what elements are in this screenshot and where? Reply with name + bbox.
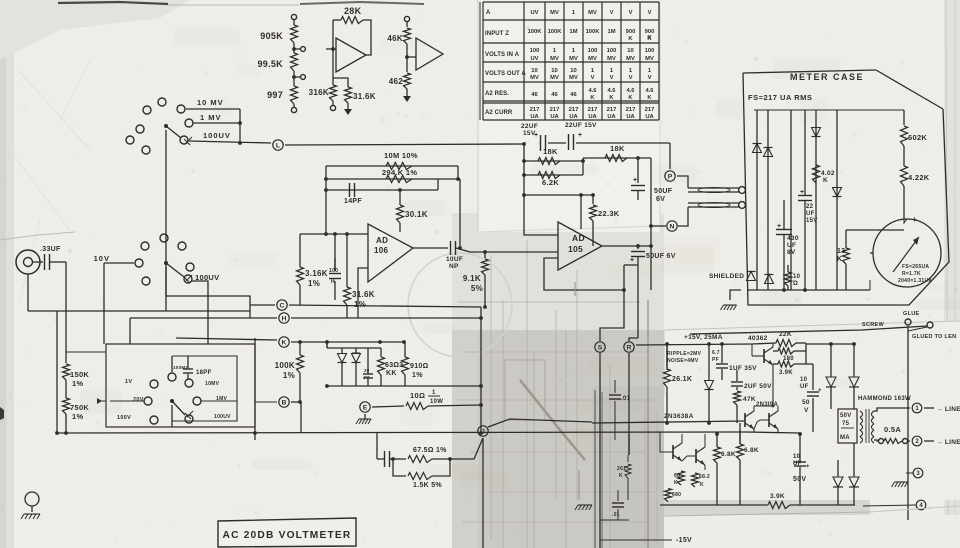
- svg-text:10M 10%: 10M 10%: [384, 151, 418, 160]
- svg-text:6V: 6V: [656, 196, 665, 203]
- svg-text:22UF: 22UF: [521, 123, 538, 130]
- svg-text:50V: 50V: [793, 476, 806, 483]
- svg-text:910Ω: 910Ω: [410, 363, 429, 370]
- svg-text:10Ω: 10Ω: [410, 391, 425, 400]
- svg-text:67.5Ω 1%: 67.5Ω 1%: [413, 447, 447, 454]
- svg-text:UF: UF: [800, 384, 809, 390]
- svg-text:217: 217: [550, 107, 560, 113]
- svg-text:2N3I9A: 2N3I9A: [756, 402, 779, 408]
- svg-text:10: 10: [570, 68, 576, 74]
- svg-text:9.1K: 9.1K: [463, 274, 481, 283]
- svg-text:UA: UA: [645, 114, 654, 120]
- svg-text:8V: 8V: [787, 249, 796, 256]
- svg-text:997: 997: [267, 90, 283, 100]
- svg-text:10: 10: [793, 274, 801, 280]
- svg-text:217: 217: [588, 107, 598, 113]
- svg-text:294.K 1%: 294.K 1%: [382, 168, 417, 177]
- svg-text:UA: UA: [626, 114, 635, 120]
- svg-text:→ LINE: → LINE: [936, 406, 960, 413]
- svg-text:22.3K: 22.3K: [598, 209, 620, 218]
- svg-text:UV: UV: [530, 10, 538, 16]
- svg-text:905K: 905K: [260, 31, 283, 41]
- svg-text:100: 100: [530, 48, 540, 54]
- svg-text:1%: 1%: [283, 371, 295, 380]
- svg-text:100: 100: [329, 268, 338, 274]
- svg-text:+: +: [777, 223, 781, 230]
- svg-text:0.5A: 0.5A: [884, 425, 901, 434]
- svg-text:MA: MA: [840, 435, 850, 441]
- svg-text:MV: MV: [569, 75, 578, 81]
- svg-text:MV: MV: [530, 75, 539, 81]
- svg-text:10V: 10V: [94, 254, 110, 263]
- svg-text:100UV: 100UV: [214, 414, 231, 420]
- svg-text:1V: 1V: [125, 379, 132, 385]
- svg-text:18PF: 18PF: [196, 370, 212, 376]
- svg-text:900: 900: [626, 29, 636, 35]
- svg-text:.33UF: .33UF: [40, 246, 61, 253]
- svg-text:+: +: [578, 132, 582, 139]
- svg-text:14PF: 14PF: [344, 198, 362, 205]
- svg-text:217: 217: [569, 107, 579, 113]
- svg-text:28K: 28K: [344, 6, 362, 16]
- svg-text:1%: 1%: [412, 372, 423, 379]
- svg-text:+: +: [806, 464, 810, 470]
- svg-text:C: C: [280, 302, 285, 309]
- svg-text:MV: MV: [626, 56, 635, 62]
- svg-text:10: 10: [800, 377, 808, 383]
- svg-text:6.2K: 6.2K: [542, 178, 559, 187]
- svg-text:1M: 1M: [569, 29, 577, 35]
- svg-text:15V: 15V: [806, 218, 818, 224]
- svg-text:602K: 602K: [908, 133, 927, 142]
- svg-text:A2 CURR: A2 CURR: [485, 110, 513, 116]
- svg-text:AD: AD: [572, 233, 585, 243]
- svg-text:1: 1: [432, 390, 436, 396]
- svg-text:MV: MV: [569, 56, 578, 62]
- svg-text:+: +: [912, 215, 917, 224]
- svg-text:+: +: [818, 388, 822, 394]
- svg-text:VOLTS IN A: VOLTS IN A: [485, 52, 520, 58]
- svg-text:10: 10: [551, 68, 557, 74]
- svg-text:UF: UF: [806, 211, 815, 217]
- svg-text:217: 217: [645, 107, 655, 113]
- svg-text:430: 430: [787, 235, 799, 242]
- svg-text:1UF 35V: 1UF 35V: [729, 365, 757, 372]
- svg-text:31.6K: 31.6K: [353, 92, 376, 101]
- svg-text:63Ω3: 63Ω3: [385, 362, 404, 369]
- svg-text:68.2: 68.2: [699, 474, 710, 480]
- svg-text:MV: MV: [607, 56, 616, 62]
- svg-text:3.16K: 3.16K: [305, 269, 328, 278]
- svg-text:100: 100: [607, 48, 617, 54]
- svg-text:1%: 1%: [308, 279, 320, 288]
- svg-text:20: 20: [364, 368, 370, 373]
- svg-text:PF: PF: [712, 357, 719, 363]
- svg-text:MV: MV: [588, 56, 597, 62]
- svg-text:E: E: [363, 404, 368, 411]
- svg-text:.01: .01: [612, 512, 620, 518]
- svg-text:+: +: [800, 189, 804, 196]
- svg-text:→ LINE: → LINE: [936, 439, 960, 446]
- svg-text:K: K: [837, 256, 842, 263]
- svg-text:VOLTS OUT A: VOLTS OUT A: [485, 71, 526, 77]
- svg-text:K: K: [823, 177, 828, 184]
- svg-text:26.1K: 26.1K: [672, 376, 692, 383]
- svg-text:100V: 100V: [117, 415, 131, 421]
- svg-text:18K: 18K: [543, 147, 558, 156]
- svg-text:261: 261: [617, 466, 626, 472]
- svg-text:40362: 40362: [748, 335, 768, 342]
- svg-text:106: 106: [374, 246, 388, 255]
- svg-text:1M: 1M: [607, 29, 615, 35]
- svg-text:50: 50: [802, 399, 810, 406]
- svg-text:+15V, 25MA: +15V, 25MA: [684, 334, 723, 341]
- svg-text:13: 13: [837, 248, 845, 255]
- svg-text:217: 217: [530, 107, 540, 113]
- svg-text:2N3638A: 2N3638A: [664, 413, 694, 420]
- svg-text:H: H: [282, 315, 287, 322]
- svg-text:UF: UF: [793, 461, 802, 467]
- svg-text:10UF: 10UF: [446, 256, 463, 263]
- svg-text:10: 10: [531, 68, 537, 74]
- svg-text:1%: 1%: [72, 379, 83, 388]
- svg-text:R=1.7K: R=1.7K: [902, 271, 921, 277]
- svg-text:4.02: 4.02: [821, 170, 835, 177]
- svg-text:Ω: Ω: [793, 281, 798, 287]
- svg-text:R: R: [627, 344, 632, 351]
- svg-text:5%: 5%: [471, 284, 483, 293]
- svg-text:316K: 316K: [309, 88, 329, 97]
- svg-text:K: K: [674, 480, 678, 486]
- svg-text:4.6: 4.6: [645, 88, 654, 94]
- svg-text:46: 46: [531, 92, 538, 98]
- svg-text:AD: AD: [376, 236, 388, 245]
- svg-text:GLUED TO LEN: GLUED TO LEN: [912, 334, 956, 340]
- svg-text:V: V: [629, 75, 633, 81]
- svg-text:L: L: [276, 142, 280, 149]
- svg-text:UA: UA: [530, 114, 539, 120]
- svg-text:INPUT Z: INPUT Z: [485, 31, 509, 37]
- svg-text:462: 462: [389, 77, 403, 86]
- svg-text:SCREW: SCREW: [862, 322, 884, 328]
- svg-text:31.6K: 31.6K: [352, 290, 375, 299]
- svg-text:10W: 10W: [430, 399, 443, 405]
- svg-text:22: 22: [806, 204, 814, 210]
- svg-text:HAMMOND 163W: HAMMOND 163W: [858, 396, 911, 402]
- svg-text:N: N: [670, 223, 675, 230]
- svg-text:V: V: [591, 75, 595, 81]
- svg-text:100K: 100K: [528, 29, 543, 35]
- svg-text:100UV: 100UV: [203, 131, 231, 140]
- svg-text:A2 RES.: A2 RES.: [485, 91, 509, 97]
- svg-text:+: +: [534, 132, 538, 139]
- svg-text:4.22K: 4.22K: [908, 173, 930, 182]
- svg-text:47K: 47K: [743, 396, 756, 403]
- svg-text:V: V: [648, 10, 652, 16]
- svg-text:GLUE: GLUE: [903, 311, 920, 317]
- svg-text:UF: UF: [787, 242, 796, 249]
- svg-text:UA: UA: [607, 114, 616, 120]
- svg-text:46: 46: [551, 92, 558, 98]
- svg-text:100: 100: [588, 48, 598, 54]
- svg-text:MV: MV: [550, 56, 559, 62]
- svg-text:V: V: [610, 10, 614, 16]
- svg-text:S: S: [598, 344, 603, 351]
- svg-text:B: B: [282, 399, 287, 406]
- svg-text:75: 75: [842, 421, 850, 427]
- svg-text:50V: 50V: [840, 413, 852, 419]
- svg-text:217: 217: [626, 107, 636, 113]
- svg-text:KK: KK: [386, 370, 397, 377]
- svg-text:A: A: [486, 10, 491, 16]
- svg-text:3.9K: 3.9K: [770, 493, 785, 500]
- svg-text:6.7: 6.7: [712, 350, 720, 356]
- svg-text:V: V: [610, 75, 614, 81]
- svg-text:150K: 150K: [70, 370, 89, 379]
- svg-text:99.5K: 99.5K: [257, 59, 283, 69]
- svg-text:20V: 20V: [133, 397, 144, 403]
- svg-text:MV: MV: [550, 75, 559, 81]
- svg-text:UA: UA: [550, 114, 559, 120]
- svg-text:217: 217: [607, 107, 617, 113]
- svg-text:100K: 100K: [586, 29, 601, 35]
- svg-text:46: 46: [570, 92, 577, 98]
- svg-text:680: 680: [672, 492, 681, 498]
- svg-text:1%: 1%: [72, 412, 83, 421]
- svg-text:10: 10: [793, 454, 801, 460]
- svg-text:4.6: 4.6: [588, 88, 597, 94]
- svg-text:K: K: [619, 473, 623, 479]
- svg-text:2UF 50V: 2UF 50V: [744, 383, 772, 390]
- svg-text:50UF: 50UF: [654, 188, 673, 195]
- svg-text:UA: UA: [588, 114, 597, 120]
- svg-text:3.9K: 3.9K: [779, 370, 793, 376]
- svg-text:RIPPLE=2MV: RIPPLE=2MV: [667, 351, 702, 357]
- svg-text:100: 100: [645, 48, 655, 54]
- svg-text:22K: 22K: [779, 331, 792, 338]
- svg-text:MV: MV: [588, 10, 597, 16]
- svg-text:105: 105: [568, 244, 583, 254]
- svg-text:K: K: [282, 339, 287, 346]
- svg-text:10MV: 10MV: [205, 381, 220, 387]
- svg-text:NP: NP: [449, 263, 459, 270]
- svg-text:UA: UA: [569, 114, 578, 120]
- svg-text:+: +: [633, 177, 637, 184]
- svg-text:6.8K: 6.8K: [744, 447, 759, 454]
- svg-text:V: V: [648, 75, 652, 81]
- svg-text:SHIELDED: SHIELDED: [709, 273, 744, 280]
- svg-text:-15V: -15V: [676, 537, 692, 544]
- svg-text:J: J: [481, 428, 485, 435]
- svg-text:6.8K: 6.8K: [721, 451, 736, 458]
- svg-text:V: V: [804, 407, 809, 414]
- svg-text:1.5K 5%: 1.5K 5%: [413, 482, 442, 489]
- svg-text:NOISE=4MV: NOISE=4MV: [667, 358, 699, 364]
- svg-text:10: 10: [627, 48, 633, 54]
- svg-text:+: +: [630, 257, 634, 264]
- svg-text:FS=265UA: FS=265UA: [902, 264, 929, 270]
- svg-text:V: V: [629, 10, 633, 16]
- svg-text:MV: MV: [645, 56, 654, 62]
- svg-text:22UF 15V: 22UF 15V: [565, 122, 597, 129]
- svg-text:68: 68: [674, 473, 680, 479]
- svg-text:100K: 100K: [275, 361, 295, 370]
- svg-text:PF: PF: [364, 375, 370, 380]
- svg-text:AC 20DB VOLTMETER: AC 20DB VOLTMETER: [223, 530, 352, 541]
- svg-text:1%: 1%: [354, 300, 366, 309]
- svg-text:K: K: [700, 482, 704, 488]
- svg-text:100K: 100K: [548, 29, 563, 35]
- svg-text:4.6: 4.6: [607, 88, 616, 94]
- svg-text:UV: UV: [530, 56, 538, 62]
- svg-text:MV: MV: [550, 10, 559, 16]
